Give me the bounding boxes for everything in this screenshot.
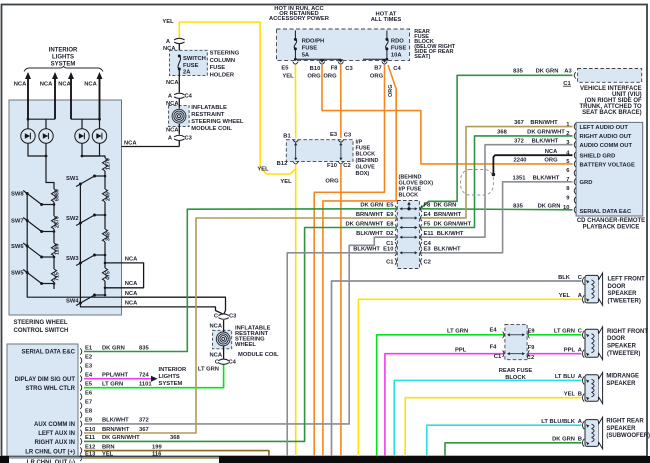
svg-text:715: 715 xyxy=(55,272,61,281)
svg-text:SPEAKER: SPEAKER xyxy=(608,291,638,297)
svg-text:E4: E4 xyxy=(85,373,93,379)
svg-text:835: 835 xyxy=(513,69,523,75)
wire LT BLU/BLK subwoofer xyxy=(427,425,582,457)
rear fuse block 2 label xyxy=(499,368,533,381)
svg-text:DK GRN/WHT E8: DK GRN/WHT E8 xyxy=(346,221,395,227)
label NCA output 1 xyxy=(125,257,138,263)
wire LT BLU midrange xyxy=(394,380,581,457)
svg-text:LEFT FRONT: LEFT FRONT xyxy=(608,277,646,283)
resistor 475 xyxy=(102,268,111,281)
label 835 DK GRN A3 xyxy=(513,69,572,75)
svg-text:1180: 1180 xyxy=(55,243,61,255)
wire LT GRN right tweeter xyxy=(377,335,582,457)
resistor 1270 xyxy=(102,158,111,171)
label LT BLU A xyxy=(555,374,583,380)
svg-text:MODULE COIL: MODULE COIL xyxy=(238,352,279,358)
radio connector box xyxy=(7,344,78,456)
resistor 348 xyxy=(102,229,111,242)
svg-text:LT GRN: LT GRN xyxy=(102,382,123,388)
wire C3 down to NCA xyxy=(178,141,180,147)
left front door speaker label xyxy=(608,277,646,305)
svg-text:SW1: SW1 xyxy=(66,176,79,182)
svg-text:NCA: NCA xyxy=(210,353,223,359)
svg-text:DOOR: DOOR xyxy=(607,336,626,342)
svg-text:DK GRN: DK GRN xyxy=(536,69,559,75)
label LT GRN C xyxy=(554,328,583,334)
interior lights system label 2 xyxy=(159,367,188,387)
svg-text:NCA: NCA xyxy=(14,82,27,88)
left switch common bus xyxy=(26,194,122,298)
svg-text:NCA: NCA xyxy=(58,82,71,88)
svg-text:BRN/WHT: BRN/WHT xyxy=(530,120,558,126)
wire fuse to C4 xyxy=(178,69,180,93)
svg-text:116: 116 xyxy=(152,452,162,458)
svg-text:F4: F4 xyxy=(490,345,498,351)
svg-text:LR CHNL OUT (+): LR CHNL OUT (+) xyxy=(25,450,75,456)
wire BRN/WHT E10 to fuse E9 xyxy=(84,218,397,433)
switch SW6 xyxy=(11,243,55,259)
switch fuse holder box xyxy=(170,50,208,75)
I/P fuse block label xyxy=(356,140,379,177)
svg-text:C1: C1 xyxy=(386,260,394,266)
wire LED pair2 to right chain xyxy=(82,156,105,158)
label 835 DK GRN at pin10 xyxy=(513,204,560,210)
svg-text:LT BLU: LT BLU xyxy=(555,374,575,380)
svg-text:LEFT AUX IN: LEFT AUX IN xyxy=(38,431,75,437)
CD changer box xyxy=(576,122,643,216)
right switch common bus xyxy=(79,184,121,307)
svg-text:NCA: NCA xyxy=(125,291,138,297)
label C1 underlined xyxy=(563,81,571,87)
svg-text:GLOVE: GLOVE xyxy=(356,165,376,171)
svg-text:F8: F8 xyxy=(331,65,339,71)
CD changer pins 1-10 xyxy=(563,122,576,213)
label YEL B xyxy=(564,391,582,397)
pin B12 xyxy=(277,161,299,167)
svg-text:348: 348 xyxy=(106,232,112,241)
svg-text:C3: C3 xyxy=(344,133,352,139)
label NCA arrows xyxy=(14,82,98,88)
svg-text:(TWEETER): (TWEETER) xyxy=(608,298,641,304)
svg-text:SW8: SW8 xyxy=(11,192,24,198)
svg-text:GRD: GRD xyxy=(580,180,593,186)
shield symbol xyxy=(461,170,494,196)
svg-text:E5: E5 xyxy=(281,66,289,72)
svg-text:E3: E3 xyxy=(330,132,338,138)
svg-text:(SUBWOOFER): (SUBWOOFER) xyxy=(606,433,650,439)
resistor 2370 xyxy=(51,216,60,229)
inflatable restraint label upper xyxy=(191,105,244,132)
svg-text:NCA: NCA xyxy=(210,324,223,330)
label NCA at box pin xyxy=(124,141,137,147)
svg-text:DK GRN/WHT: DK GRN/WHT xyxy=(102,435,140,441)
rdo/ph fuse label xyxy=(302,39,325,59)
svg-text:RDO/PH: RDO/PH xyxy=(302,39,325,45)
svg-text:DK GRN: DK GRN xyxy=(538,204,561,210)
svg-text:C4: C4 xyxy=(185,94,193,100)
resistor 6980 xyxy=(51,189,60,202)
wire BLK/WHT E9 to fuse D2 xyxy=(84,237,397,424)
wire YEL top loop xyxy=(179,22,295,174)
svg-text:10: 10 xyxy=(563,205,569,211)
right rear speaker label xyxy=(606,419,650,440)
svg-text:BLK/WHT: BLK/WHT xyxy=(532,138,559,144)
label NCA below A xyxy=(163,46,176,52)
internal arrow B1-B12 xyxy=(294,143,297,161)
svg-text:E11 BLK/WHT: E11 BLK/WHT xyxy=(424,231,464,237)
wire ORG C4 diagonal down-left-down xyxy=(323,65,396,457)
svg-text:E3 BLK/WHT: E3 BLK/WHT xyxy=(424,247,461,253)
svg-text:SW4: SW4 xyxy=(66,299,79,305)
svg-text:NCA: NCA xyxy=(40,82,53,88)
svg-text:C4: C4 xyxy=(424,241,432,247)
connector C4 upper coil xyxy=(168,93,193,99)
svg-text:LT BLU/BLK: LT BLU/BLK xyxy=(541,419,576,425)
svg-text:INTERIOR: INTERIOR xyxy=(159,367,188,373)
hot in run title xyxy=(269,6,330,22)
svg-text:AUDIO COMM OUT: AUDIO COMM OUT xyxy=(580,143,633,149)
svg-text:PPL/WHT: PPL/WHT xyxy=(102,373,129,379)
wire lower coil to C4 xyxy=(223,346,225,359)
svg-text:ORG: ORG xyxy=(325,179,339,185)
svg-text:C4: C4 xyxy=(393,66,401,72)
svg-text:F10: F10 xyxy=(327,163,337,169)
svg-text:LT GRN: LT GRN xyxy=(554,328,575,334)
svg-text:BLOCK: BLOCK xyxy=(399,193,419,199)
label 372 BLK/WHT xyxy=(514,138,559,144)
inflatable restraint label lower xyxy=(235,326,279,359)
svg-text:E5: E5 xyxy=(85,382,93,388)
svg-text:6980: 6980 xyxy=(55,189,61,201)
wire coil to C3 xyxy=(178,124,180,135)
brace over arrows xyxy=(24,66,103,72)
label LT GRN lower coil xyxy=(198,367,219,373)
right rear speaker xyxy=(582,417,602,449)
svg-text:B: B xyxy=(578,391,582,397)
svg-text:SHIELD GRD: SHIELD GRD xyxy=(580,153,616,159)
rear fuse block 2 box xyxy=(505,324,527,359)
svg-text:DK GRN: DK GRN xyxy=(102,345,125,351)
connector C3 upper coil xyxy=(168,135,193,141)
svg-text:PLAYBACK DEVICE: PLAYBACK DEVICE xyxy=(583,224,640,230)
switch SW5 xyxy=(11,270,55,286)
wire DK GRN 835 F8 to VIU and CD pin10 xyxy=(420,75,572,210)
svg-text:E2: E2 xyxy=(85,354,92,360)
svg-text:249: 249 xyxy=(106,192,112,201)
coil symbol lower xyxy=(216,332,230,346)
wire BRN E12 down xyxy=(84,451,269,458)
switch SW3 xyxy=(66,254,106,266)
LED 4 (illumination lamp) xyxy=(92,129,106,143)
label PPL A xyxy=(564,347,583,353)
label NCA output 2 xyxy=(125,281,138,287)
svg-text:STEERING WHEEL: STEERING WHEEL xyxy=(191,119,244,125)
label YEL under B12 xyxy=(280,179,292,185)
svg-text:B: B xyxy=(578,436,582,442)
fuse block bottom bus right xyxy=(363,59,387,63)
wire BLK/WHT 372 E11 to CD pin3 xyxy=(420,145,572,238)
wire DK GRN/WHT E11 to fuse E8 xyxy=(84,228,397,442)
svg-text:DK GRN: DK GRN xyxy=(552,436,575,442)
wire LED pair1 to left chain xyxy=(45,155,54,189)
svg-text:PPL: PPL xyxy=(455,347,467,353)
midrange speaker xyxy=(582,372,602,403)
label BLK C xyxy=(558,275,583,281)
svg-text:BLK/WHT D2: BLK/WHT D2 xyxy=(356,231,393,237)
svg-text:ORG: ORG xyxy=(307,73,321,79)
svg-text:STEERING: STEERING xyxy=(210,50,240,56)
svg-text:C2: C2 xyxy=(424,260,431,266)
svg-text:C3: C3 xyxy=(185,136,193,142)
svg-text:199: 199 xyxy=(152,444,162,450)
wire ORG F10 down to bottom bar xyxy=(340,165,342,458)
LED 1 (illumination lamp) xyxy=(21,129,35,143)
left chain segments xyxy=(53,202,55,289)
svg-text:CONTROL SWITCH: CONTROL SWITCH xyxy=(14,328,69,334)
label 1351 BLK/WHT xyxy=(513,175,560,181)
bottom cut black bar xyxy=(0,456,650,463)
svg-text:STRG WHL CTLR: STRG WHL CTLR xyxy=(25,386,75,392)
right front door speaker xyxy=(582,327,602,360)
svg-text:E8: E8 xyxy=(85,409,93,415)
LED 3 (illumination lamp) xyxy=(75,129,89,143)
internal arrow E3-F10 xyxy=(339,143,342,161)
connector bracket row C1-C4 xyxy=(386,241,432,249)
svg-text:372: 372 xyxy=(139,418,149,424)
switch fuse 2A xyxy=(178,55,181,71)
wire NCA shield drain to CD pin4 xyxy=(492,155,573,176)
svg-text:1270: 1270 xyxy=(106,158,112,170)
label LT GRN left of block xyxy=(447,328,468,334)
svg-text:C3: C3 xyxy=(345,66,353,72)
arrow NCA to interior lights 2 xyxy=(52,72,58,119)
label YEL at jog 1 xyxy=(257,167,269,173)
midrange speaker label xyxy=(606,374,639,387)
svg-text:YEL: YEL xyxy=(257,167,269,173)
svg-text:YEL: YEL xyxy=(280,179,292,185)
pin E5 xyxy=(281,62,298,72)
svg-text:835: 835 xyxy=(139,345,149,351)
svg-text:INFLATABLE: INFLATABLE xyxy=(191,105,227,111)
wire DK GRN/WHT 368 F5 to CD pin2 xyxy=(420,136,572,228)
svg-text:10A: 10A xyxy=(391,53,402,59)
svg-text:STEERING WHEEL: STEERING WHEEL xyxy=(14,320,68,326)
svg-text:C2: C2 xyxy=(527,355,534,361)
svg-text:FUSE: FUSE xyxy=(302,46,318,52)
svg-text:SPEAKER: SPEAKER xyxy=(606,426,636,432)
svg-text:BLK/WHT E10: BLK/WHT E10 xyxy=(353,247,393,253)
svg-text:BLK/WHT: BLK/WHT xyxy=(533,175,560,181)
inflatable restraint coil box upper xyxy=(169,99,190,127)
svg-text:E13: E13 xyxy=(85,452,96,458)
steering wheel control switch box xyxy=(9,100,122,315)
wire LED bottom bus right xyxy=(81,143,100,157)
svg-text:LT GRN: LT GRN xyxy=(198,367,219,373)
rdo fuse 10A xyxy=(385,31,388,61)
svg-text:C1: C1 xyxy=(494,354,502,360)
resistor 1180 xyxy=(51,243,60,256)
svg-text:E3: E3 xyxy=(85,363,93,369)
svg-text:B10: B10 xyxy=(310,66,321,72)
svg-text:BLOCK: BLOCK xyxy=(356,152,376,158)
label switch fuse xyxy=(183,56,206,75)
svg-text:BATTERY VOLTAGE: BATTERY VOLTAGE xyxy=(580,162,636,168)
label NCA output 4 xyxy=(125,301,138,307)
label ORG under B7 xyxy=(370,73,384,79)
svg-text:SW7: SW7 xyxy=(11,219,24,225)
svg-text:2A: 2A xyxy=(183,69,191,75)
svg-text:RIGHT FRONT: RIGHT FRONT xyxy=(607,329,648,335)
svg-text:MIDRANGE: MIDRANGE xyxy=(606,374,639,380)
wire LT GRN E5 to lower coil C4 xyxy=(84,365,224,388)
switch SW8 xyxy=(11,191,55,207)
svg-text:372: 372 xyxy=(514,138,524,144)
svg-text:NCA: NCA xyxy=(125,301,138,307)
svg-text:COLUMN: COLUMN xyxy=(210,58,235,64)
label YEL top xyxy=(162,19,174,25)
svg-text:368: 368 xyxy=(170,435,180,441)
svg-text:ORG: ORG xyxy=(544,158,558,164)
label NCA above C4 xyxy=(166,80,179,86)
label NCA output 3 xyxy=(125,291,138,297)
svg-text:F9: F9 xyxy=(528,345,536,351)
svg-text:SERIAL DATA E&C: SERIAL DATA E&C xyxy=(580,209,632,215)
rdo/ph fuse 5A xyxy=(294,31,297,61)
label 367 BRN/WHT xyxy=(514,120,558,126)
svg-text:WHEEL: WHEEL xyxy=(235,342,256,348)
label LT BLU/BLK A xyxy=(541,419,582,425)
label PPL left of block xyxy=(455,347,467,353)
svg-text:SEAT BACK BRACE): SEAT BACK BRACE) xyxy=(582,110,642,116)
wire BLK left tweeter xyxy=(332,281,582,457)
label NCA below C4 xyxy=(166,101,179,107)
svg-text:2240: 2240 xyxy=(514,158,527,164)
svg-text:BRN/WHT: BRN/WHT xyxy=(102,427,130,433)
wire PPL/WHT E4 to interior lights xyxy=(84,376,158,382)
internal bus stub with dot xyxy=(407,202,411,211)
connector A upper xyxy=(166,38,185,45)
label 2240 ORG xyxy=(514,158,559,164)
svg-text:REAR FUSE: REAR FUSE xyxy=(499,368,533,374)
svg-text:FUSE: FUSE xyxy=(210,65,226,71)
wire E10 BLK/WHT continues down xyxy=(287,253,396,457)
wire NCA steering box to coil C3 top xyxy=(122,146,180,148)
svg-text:YEL: YEL xyxy=(102,452,114,458)
svg-text:SW6: SW6 xyxy=(11,244,24,250)
svg-text:C1: C1 xyxy=(386,241,394,247)
svg-text:ALL TIMES: ALL TIMES xyxy=(371,17,402,23)
svg-text:LT GRN: LT GRN xyxy=(447,328,468,334)
pin B10 xyxy=(310,62,325,72)
svg-text:C2: C2 xyxy=(343,163,350,169)
svg-text:E4 BRN/WHT: E4 BRN/WHT xyxy=(424,212,462,218)
wire NCA to coil C3 lower xyxy=(122,307,224,314)
wire ORG B7 down-left-down xyxy=(314,65,384,457)
left front door speaker xyxy=(582,273,602,305)
svg-text:E6: E6 xyxy=(85,391,93,397)
switch SW4 xyxy=(66,294,106,306)
pin E3 xyxy=(330,132,352,142)
svg-text:ORG: ORG xyxy=(323,73,337,79)
VIU box xyxy=(578,69,642,83)
label YEL A xyxy=(559,293,583,299)
svg-text:MODULE COIL: MODULE COIL xyxy=(191,126,232,132)
svg-text:ORG: ORG xyxy=(388,84,394,97)
wire LED bottom bus left xyxy=(28,143,47,157)
svg-text:BRN/WHT E9: BRN/WHT E9 xyxy=(356,212,394,218)
svg-text:E10: E10 xyxy=(85,427,95,433)
svg-text:DK GRN/WHT: DK GRN/WHT xyxy=(527,130,565,136)
svg-text:C3: C3 xyxy=(229,313,237,319)
svg-text:LIGHTS: LIGHTS xyxy=(52,55,74,61)
svg-text:ORG: ORG xyxy=(370,73,384,79)
svg-text:DOOR: DOOR xyxy=(608,284,627,290)
svg-text:SYSTEM: SYSTEM xyxy=(159,381,183,387)
svg-text:F5 DK GRN/WHT: F5 DK GRN/WHT xyxy=(424,221,472,227)
wire LED top bus right xyxy=(71,118,101,129)
resistor 715 xyxy=(51,269,60,282)
label ORG under B10 xyxy=(307,73,321,79)
lower coil box xyxy=(213,320,232,349)
svg-text:RDO: RDO xyxy=(391,39,404,45)
wire ORG F8/C3 to IP E3 xyxy=(340,65,342,138)
fuse block bottom bus left xyxy=(295,59,343,63)
svg-text:BOX): BOX) xyxy=(356,171,370,177)
svg-text:HOLDER: HOLDER xyxy=(210,73,235,79)
svg-text:DIPLAY DIM SIG OUT: DIPLAY DIM SIG OUT xyxy=(15,377,76,383)
svg-text:SPEAKER: SPEAKER xyxy=(607,344,637,350)
arrow NCA to interior lights 1 xyxy=(25,72,31,119)
hot at all times title xyxy=(371,12,402,23)
wire YEL midrange xyxy=(405,398,581,457)
svg-text:DK GRN E5: DK GRN E5 xyxy=(360,203,394,209)
svg-text:NCA: NCA xyxy=(84,82,97,88)
pin F8 C3 xyxy=(331,62,354,72)
svg-text:A3: A3 xyxy=(564,69,572,75)
svg-text:1351: 1351 xyxy=(513,175,527,181)
svg-text:YEL: YEL xyxy=(564,391,576,397)
svg-text:SERIAL DATA E&C: SERIAL DATA E&C xyxy=(22,350,76,356)
svg-text:F8 DK GRN: F8 DK GRN xyxy=(424,203,457,209)
wire DK GRN subwoofer xyxy=(445,443,582,457)
svg-text:BLK/WHT: BLK/WHT xyxy=(102,418,129,424)
svg-text:367: 367 xyxy=(139,427,149,433)
svg-text:B12: B12 xyxy=(277,161,288,167)
interior lights system title xyxy=(49,48,78,68)
resistor 249 xyxy=(102,189,111,202)
arrow NCA to interior lights 4 xyxy=(97,72,103,119)
label E4 E9 xyxy=(489,327,535,334)
svg-text:5A: 5A xyxy=(302,53,310,59)
label NCA above C3 xyxy=(166,128,179,134)
svg-text:NCA: NCA xyxy=(166,128,179,134)
right chain segments xyxy=(104,171,106,295)
VIU pin bracket xyxy=(574,72,575,79)
svg-text:FUSE: FUSE xyxy=(183,63,199,69)
svg-text:B7: B7 xyxy=(374,65,381,71)
svg-text:SW3: SW3 xyxy=(66,256,79,262)
svg-text:RIGHT AUDIO OUT: RIGHT AUDIO OUT xyxy=(580,134,632,140)
svg-text:LIGHTS: LIGHTS xyxy=(159,374,180,380)
svg-text:1101: 1101 xyxy=(139,382,152,388)
wire PPL right tweeter xyxy=(385,354,582,457)
svg-text:BRN: BRN xyxy=(102,444,115,450)
svg-text:SPEAKER: SPEAKER xyxy=(606,381,636,387)
svg-text:YEL: YEL xyxy=(559,293,571,299)
pin B1 xyxy=(283,134,298,143)
svg-text:RIGHT AUX IN: RIGHT AUX IN xyxy=(35,440,75,446)
pin B7 C4 xyxy=(374,62,401,72)
